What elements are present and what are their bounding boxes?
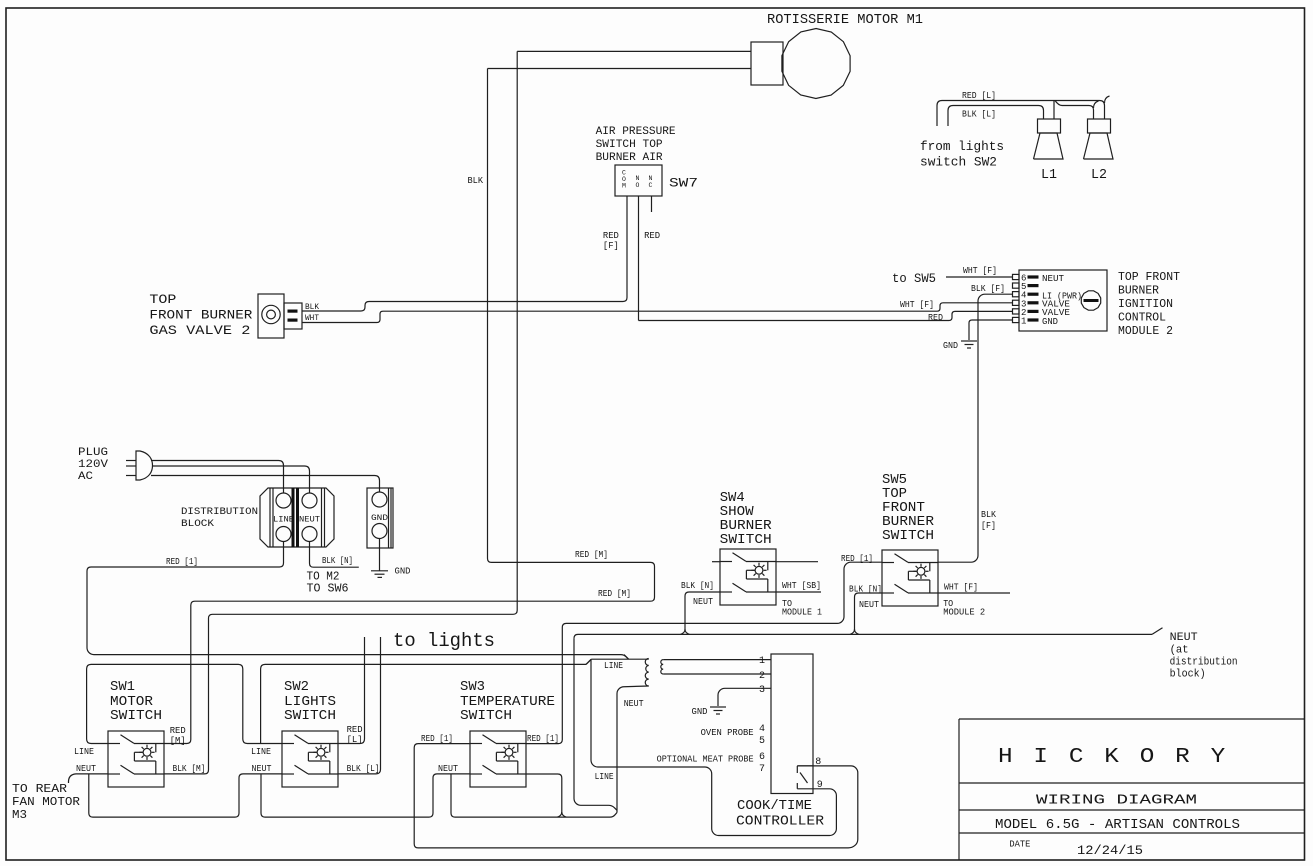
- cook/time controller box: [771, 654, 813, 794]
- svg-text:distribution: distribution: [1170, 657, 1238, 669]
- svg-text:switch SW2: switch SW2: [920, 155, 997, 170]
- label RED [M] at SW1: [170, 725, 186, 746]
- plug prongs: [126, 461, 136, 476]
- svg-text:120V: 120V: [78, 459, 108, 471]
- svg-text:SW2: SW2: [284, 679, 309, 695]
- svg-text:GND: GND: [943, 340, 958, 351]
- svg-text:DATE: DATE: [1009, 840, 1030, 850]
- svg-text:DISTRIBUTION: DISTRIBUTION: [181, 506, 258, 518]
- lamp L2: [1084, 119, 1114, 159]
- svg-text:SWITCH: SWITCH: [284, 708, 336, 724]
- wire NEUT bus SW2 bridge: [261, 774, 470, 817]
- ground symbol at module 2: [961, 341, 977, 348]
- switch SW2 labels: [284, 679, 336, 724]
- svg-text:BURNER AIR: BURNER AIR: [596, 152, 663, 164]
- svg-text:MODULE 1: MODULE 1: [782, 607, 822, 618]
- node SW5 NEUT junction: [850, 629, 855, 634]
- svg-text:GND: GND: [692, 706, 708, 717]
- svg-text:GND: GND: [395, 566, 411, 577]
- rotisserie motor M1 body: [751, 29, 850, 99]
- svg-text:LINE: LINE: [595, 771, 614, 782]
- svg-text:LINE: LINE: [251, 746, 271, 757]
- svg-text:WHT [SB]: WHT [SB]: [782, 580, 821, 591]
- wire neutral bus horizontal: [574, 628, 1163, 639]
- note TO MODULE 1: [782, 598, 822, 618]
- ground symbol at distribution: [371, 571, 388, 578]
- wire plug line to distribution LINE: [151, 461, 284, 494]
- svg-text:BLK: BLK: [468, 175, 484, 186]
- note TO M2 TO SW6: [307, 571, 349, 596]
- svg-text:BLK [N]: BLK [N]: [322, 555, 353, 566]
- ground symbol at controller: [710, 707, 726, 714]
- transformer secondary coil: [661, 660, 663, 674]
- svg-text:O: O: [636, 182, 640, 189]
- wire LINE bus SW2 to transformer junction: [261, 659, 592, 743]
- svg-text:RED [1]: RED [1]: [841, 553, 873, 564]
- svg-text:BLK: BLK: [981, 509, 996, 520]
- svg-text:SW3: SW3: [460, 679, 485, 695]
- node L1 right pin: [1053, 101, 1055, 120]
- distribution block label: [181, 506, 258, 530]
- module 2 pin labels: [1042, 274, 1082, 327]
- svg-text:OVEN PROBE: OVEN PROBE: [701, 727, 754, 738]
- wire module pin1 to ground: [969, 320, 1012, 340]
- svg-text:BLOCK: BLOCK: [181, 518, 215, 530]
- svg-text:MODULE 2: MODULE 2: [1118, 325, 1173, 338]
- svg-text:1: 1: [1021, 317, 1026, 327]
- svg-text:WIRING DIAGRAM: WIRING DIAGRAM: [1036, 794, 1197, 809]
- svg-text:WHT: WHT: [305, 313, 319, 323]
- controller internal switch 8-9: [797, 773, 807, 789]
- svg-text:from lights: from lights: [920, 139, 1004, 154]
- svg-text:FAN MOTOR: FAN MOTOR: [12, 796, 80, 809]
- svg-text:LINE: LINE: [604, 660, 623, 671]
- note from lights switch SW2: [920, 139, 1004, 170]
- svg-text:MODEL 6.5G - ARTISAN CONTROLS: MODEL 6.5G - ARTISAN CONTROLS: [995, 817, 1240, 833]
- svg-text:RED [M]: RED [M]: [575, 549, 608, 560]
- svg-text:to SW5: to SW5: [892, 271, 936, 286]
- wire BLK [L] to lights: [948, 106, 1044, 127]
- svg-text:RED [L]: RED [L]: [962, 90, 996, 101]
- wire between L1 and L2: [1055, 101, 1094, 120]
- wire NEUT to M2/SW6: [310, 542, 359, 568]
- node SW4 NEUT junction: [681, 629, 686, 634]
- svg-text:NEUT: NEUT: [624, 698, 644, 709]
- wire tail at L2 left pin: [1094, 101, 1099, 108]
- plug body: [136, 451, 153, 480]
- svg-text:M3: M3: [12, 809, 27, 822]
- svg-text:OPTIONAL MEAT PROBE: OPTIONAL MEAT PROBE: [657, 754, 754, 765]
- module 2 name text: [1118, 271, 1180, 338]
- svg-text:TOP FRONT: TOP FRONT: [1118, 271, 1180, 284]
- title block frame: [959, 719, 1305, 860]
- switch SW2 lights switch box and contacts: [282, 731, 338, 787]
- wire controller pin 2: [663, 673, 771, 675]
- svg-text:HICKORY: HICKORY: [998, 746, 1246, 769]
- module 2 pin connectors: [1013, 274, 1039, 322]
- wire SW4 WHT[SB] output stub: [776, 561, 818, 563]
- svg-text:TO SW6: TO SW6: [307, 582, 349, 595]
- transformer primary coil: [645, 659, 648, 687]
- svg-text:WHT [F]: WHT [F]: [944, 582, 978, 593]
- svg-text:[M]: [M]: [170, 735, 186, 746]
- svg-text:L1: L1: [1041, 168, 1057, 183]
- ignition control module 2 box: [1019, 270, 1107, 331]
- svg-text:SWITCH: SWITCH: [110, 708, 162, 724]
- cook/time controller label: [736, 798, 825, 830]
- svg-text:GND: GND: [1042, 317, 1058, 327]
- wire LINE bus SW1 to SW2: [87, 664, 282, 743]
- wire RED[M] riser from motor: [164, 51, 517, 774]
- wire SW3 NEUT output to neutral bus: [526, 774, 562, 813]
- svg-text:12/24/15: 12/24/15: [1077, 843, 1143, 858]
- distribution block body: [260, 488, 334, 547]
- svg-text:SW7: SW7: [669, 176, 698, 191]
- svg-text:LINE: LINE: [74, 746, 94, 757]
- controller pin numbers 1-7: [759, 656, 765, 775]
- svg-text:BLK: BLK: [305, 302, 320, 312]
- svg-text:RED [1]: RED [1]: [166, 556, 198, 567]
- svg-text:N: N: [636, 175, 640, 182]
- svg-text:SWITCH: SWITCH: [720, 532, 772, 548]
- switch SW7 box: [615, 165, 662, 196]
- module 2 igniter symbol: [1081, 291, 1100, 310]
- svg-text:NEUT: NEUT: [76, 763, 96, 774]
- svg-text:CONTROL: CONTROL: [1118, 312, 1166, 325]
- svg-text:TOP: TOP: [149, 292, 176, 307]
- wire NEUT bus from SW1: [89, 774, 282, 817]
- wire motor BLK lead (bottom): [488, 68, 752, 70]
- svg-text:block): block): [1170, 669, 1206, 681]
- switch SW3 labels: [460, 679, 555, 724]
- controller pin numbers 8 9: [815, 757, 823, 791]
- wire RED [L] to lights: [937, 101, 1105, 127]
- svg-text:L2: L2: [1091, 168, 1107, 183]
- wire SW4 bottom output stub: [776, 591, 821, 593]
- wire controller pin 8 to bus: [797, 765, 813, 767]
- svg-text:4: 4: [759, 724, 765, 735]
- svg-text:BLK [N]: BLK [N]: [849, 584, 882, 595]
- wire SW2 RED[L] output to lights: [338, 637, 365, 744]
- svg-text:AC: AC: [78, 471, 93, 483]
- svg-text:NEUT: NEUT: [693, 596, 713, 607]
- svg-text:RED [1]: RED [1]: [527, 733, 559, 744]
- plug 120V AC label: [78, 447, 108, 483]
- svg-text:LINE: LINE: [273, 516, 294, 525]
- svg-text:MODULE 2: MODULE 2: [943, 607, 985, 618]
- svg-text:GAS VALVE 2: GAS VALVE 2: [149, 323, 250, 338]
- wire tail at L2 right pin: [1105, 96, 1110, 103]
- wire plug neutral to distribution NEUT: [152, 466, 310, 493]
- module 2 pin numbers: [1021, 274, 1026, 327]
- svg-text:BLK [F]: BLK [F]: [971, 283, 1005, 294]
- wire transformer NEUT lead: [617, 686, 649, 813]
- wire GND block to ground: [379, 539, 381, 571]
- switch SW1 labels: [110, 679, 162, 724]
- wire SW7 NO (RED) down: [638, 196, 640, 321]
- wire WHT [F] to module pin 6: [946, 276, 1012, 278]
- wire BLK/RED[M] path motor to SW1: [164, 69, 655, 744]
- lamp L1: [1034, 119, 1064, 159]
- SW7 pin NC stub: [651, 196, 653, 212]
- svg-text:M: M: [622, 183, 626, 190]
- svg-text:FRONT BURNER: FRONT BURNER: [149, 308, 252, 323]
- svg-text:IGNITION: IGNITION: [1118, 298, 1173, 311]
- svg-text:NEUT: NEUT: [252, 763, 272, 774]
- wire controller pin 9: [591, 659, 836, 835]
- svg-text:TO REAR: TO REAR: [12, 783, 67, 796]
- svg-text:RED: RED: [644, 230, 660, 241]
- wire NEUT from rear fan motor M3: [68, 774, 108, 783]
- svg-text:NEUT: NEUT: [299, 516, 320, 525]
- svg-text:(at: (at: [1170, 645, 1189, 657]
- svg-text:3: 3: [759, 685, 765, 696]
- svg-text:PLUG: PLUG: [78, 447, 108, 459]
- svg-text:BLK [L]: BLK [L]: [347, 763, 380, 774]
- svg-text:WHT [F]: WHT [F]: [900, 299, 934, 310]
- label RED [L] at SW2: [347, 724, 363, 745]
- svg-text:AIR PRESSURE: AIR PRESSURE: [596, 126, 676, 138]
- wire neutral bus NEUT at distribution block: [574, 638, 617, 810]
- svg-text:WHT [F]: WHT [F]: [963, 265, 997, 276]
- wire SW7 COM to gas valve BLK: [302, 196, 627, 311]
- switch SW1 motor switch box and contacts: [108, 731, 164, 787]
- svg-text:CONTROLLER: CONTROLLER: [736, 814, 825, 830]
- svg-text:BLK [L]: BLK [L]: [962, 109, 996, 120]
- svg-text:SWITCH TOP: SWITCH TOP: [596, 139, 663, 151]
- wire SW4 NEUT riser: [685, 592, 720, 630]
- svg-text:GND: GND: [371, 514, 388, 523]
- svg-text:SWITCH: SWITCH: [460, 708, 512, 724]
- switch SW5 labels: [882, 472, 935, 544]
- ground terminal block: [367, 488, 393, 548]
- note NEUT at distribution block: [1170, 632, 1238, 681]
- wire valve WHT to module 2 pin 3: [302, 303, 1012, 323]
- svg-text:8: 8: [815, 757, 821, 768]
- wire RED [1] distribution to bus: [87, 542, 629, 660]
- svg-text:2: 2: [759, 671, 765, 682]
- switch SW5 top front burner switch box and contacts: [882, 550, 938, 606]
- svg-text:NEUT: NEUT: [859, 599, 879, 610]
- note TO REAR FAN MOTOR M3: [12, 783, 80, 822]
- wire NEUT bus SW3 bridge: [451, 774, 617, 817]
- svg-text:NEUT: NEUT: [1042, 274, 1065, 284]
- svg-text:RED [M]: RED [M]: [598, 588, 631, 599]
- label RED [F]: [603, 230, 619, 251]
- svg-text:NEUT: NEUT: [438, 763, 458, 774]
- wire SW2 BLK[L] output to lights: [338, 637, 381, 774]
- wire LINE to transformer primary: [586, 655, 649, 665]
- top front burner gas valve 2 label: [149, 292, 252, 338]
- switch SW4 show burner switch box and contacts: [720, 549, 776, 605]
- svg-text:RED: RED: [928, 312, 943, 323]
- label BLK [F] on riser: [981, 509, 996, 531]
- svg-text:1: 1: [759, 656, 765, 667]
- note TO MODULE 2: [943, 598, 985, 618]
- wire SW3 output to bus 622: [526, 562, 882, 743]
- wire controller pin8 tick: [796, 766, 798, 773]
- svg-text:BLK [M]: BLK [M]: [173, 763, 206, 774]
- svg-text:N: N: [649, 175, 653, 182]
- svg-text:to lights: to lights: [393, 630, 495, 652]
- svg-text:7: 7: [759, 764, 765, 775]
- wire plug ground to GND block: [151, 476, 380, 493]
- switch SW3 temperature switch box and contacts: [470, 731, 526, 787]
- svg-text:6: 6: [759, 752, 765, 763]
- wire SW7 NO RED to module 2 pin 2: [639, 311, 1013, 320]
- svg-text:[F]: [F]: [981, 520, 996, 531]
- svg-text:C: C: [649, 182, 653, 189]
- svg-text:BLK [N]: BLK [N]: [681, 580, 714, 591]
- svg-text:COOK/TIME: COOK/TIME: [737, 798, 812, 814]
- svg-text:SWITCH: SWITCH: [882, 528, 934, 544]
- wire SW3 RED[1] input from controller bus: [414, 744, 858, 848]
- SW4 spare input stub: [712, 561, 720, 563]
- svg-text:RED [1]: RED [1]: [421, 733, 453, 744]
- svg-text:5: 5: [759, 736, 765, 747]
- svg-text:SW1: SW1: [110, 679, 135, 695]
- gas valve 2 body: [258, 294, 302, 338]
- wire motor RED lead (top): [517, 50, 751, 52]
- air pressure switch SW7 label: [596, 126, 676, 164]
- switch SW4 labels: [720, 490, 773, 548]
- wire SW5 NEUT riser: [855, 593, 883, 630]
- svg-text:BURNER: BURNER: [1118, 285, 1159, 298]
- wire BLK [F] SW5 to module pin 4: [938, 294, 1012, 562]
- wire controller pin 1: [663, 659, 771, 661]
- wire controller pin 3 to ground: [718, 688, 771, 706]
- svg-text:ROTISSERIE MOTOR M1: ROTISSERIE MOTOR M1: [767, 13, 923, 28]
- svg-text:NEUT: NEUT: [1170, 632, 1198, 644]
- svg-text:[F]: [F]: [603, 240, 619, 251]
- wire SW5 WHT[F] output stub: [938, 592, 1010, 594]
